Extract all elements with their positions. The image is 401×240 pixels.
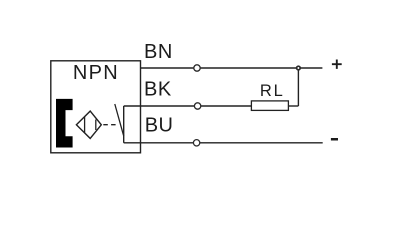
wire BN [141, 67, 323, 69]
wire BK [124, 105, 252, 107]
svg-text:BN: BN [144, 41, 173, 63]
terminal BK [194, 103, 200, 109]
diamond left chord [84, 117, 86, 133]
svg-text:RL: RL [260, 82, 285, 100]
wire node vertical [297, 68, 299, 106]
sensor body box [51, 61, 141, 153]
actuation dashed link [103, 124, 115, 126]
switch lever [115, 104, 124, 136]
sensing diamond [76, 111, 101, 138]
diamond right chord [95, 120, 97, 131]
label plus [332, 60, 342, 69]
wire BU [124, 142, 323, 144]
switch frame [123, 106, 125, 143]
svg-text:NPN: NPN [73, 62, 119, 84]
svg-text:BK: BK [144, 79, 172, 101]
node junction on BN wire [297, 66, 301, 70]
active face bracket [56, 99, 73, 148]
resistor RL body [251, 101, 288, 111]
label minus [331, 138, 338, 141]
terminal BN [194, 65, 200, 71]
terminal BU [193, 140, 199, 146]
svg-text:BU: BU [145, 115, 174, 137]
wire resistor to node [288, 105, 298, 107]
